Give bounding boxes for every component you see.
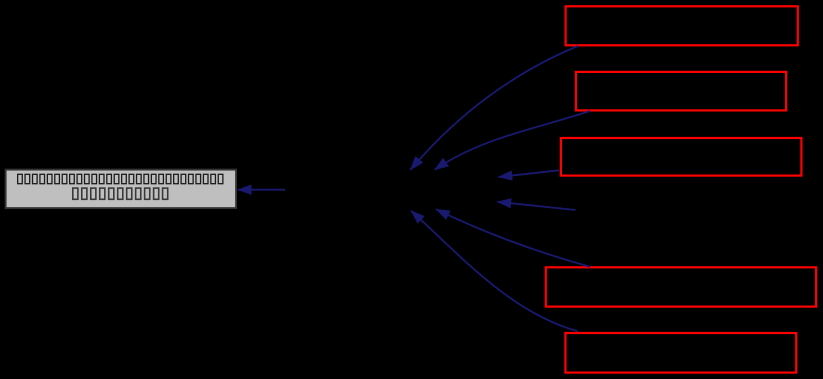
label line 2: 11 missing-glyph (tofu) boxes	[73, 188, 168, 199]
node: central function (black border, invisible on black)	[286, 170, 499, 209]
edge: caller box 6 -> central	[411, 211, 578, 332]
edge: central -> gray node	[238, 189, 285, 191]
node: caller box 3 (red, truncated)	[561, 138, 802, 176]
node: current function (gray, highlighted)	[6, 170, 237, 209]
edge: caller box 2 -> central	[435, 111, 590, 170]
label line 1: 28 missing-glyph (tofu) boxes	[18, 174, 223, 183]
node: caller box 2 (red, truncated)	[576, 72, 786, 111]
edge: caller box 1 -> central	[410, 46, 578, 170]
node: caller box 5 (red, truncated)	[546, 267, 816, 306]
edge: invisible caller box 4 -> central	[497, 202, 575, 210]
edge: caller box 5 -> central	[436, 209, 590, 267]
node: caller box 1 (red, truncated)	[566, 6, 798, 45]
edge: caller box 3 -> central	[499, 170, 560, 177]
node: caller box 6 (red, truncated)	[565, 333, 796, 373]
